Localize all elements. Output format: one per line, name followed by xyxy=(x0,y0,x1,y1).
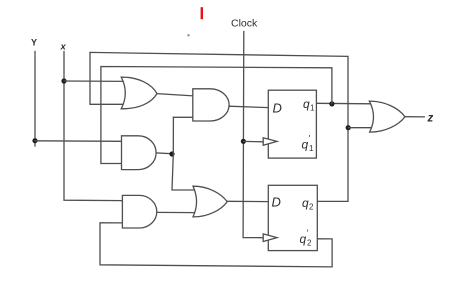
node q2 feedback junction xyxy=(346,125,351,130)
wire Y to G2 upper input xyxy=(35,140,122,143)
op: OR gate G6 output gate xyxy=(369,101,405,132)
wire clock to U1 clock pin xyxy=(243,140,263,142)
op: OR gate G1 xyxy=(121,77,157,109)
svg-text:2: 2 xyxy=(309,203,314,212)
svg-text:D: D xyxy=(273,101,282,116)
wire Y vertical xyxy=(34,52,36,147)
wire G5 output to U2 D input xyxy=(227,200,268,202)
op: AND gate G4 xyxy=(193,89,229,121)
pin U1 clock wedge xyxy=(263,138,277,146)
wire Clock vertical xyxy=(243,32,263,238)
wire G1 output to G4 upper input xyxy=(157,94,193,96)
node q1 junction xyxy=(329,101,334,106)
svg-text:q: q xyxy=(302,138,309,152)
svg-text:Clock: Clock xyxy=(231,18,258,30)
wire x to G1 upper input xyxy=(64,80,125,82)
svg-text:D: D xyxy=(272,195,281,210)
wire feedback B from q1 to G2 lower input xyxy=(101,67,332,164)
wire junction up to G4 lower input xyxy=(173,116,192,118)
flip-flop U1 box xyxy=(268,90,316,158)
svg-text:Y: Y xyxy=(31,38,37,48)
wire G3 output to G5 lower input xyxy=(157,211,194,213)
svg-text:1: 1 xyxy=(310,104,315,113)
wire G2 output xyxy=(156,152,173,155)
wire q1 to G6 upper input xyxy=(316,102,371,105)
op: OR gate G5 xyxy=(193,186,227,217)
flip-flop U2 box xyxy=(268,185,317,250)
op: AND gate G2 xyxy=(122,136,157,170)
node G2 output junction xyxy=(169,151,174,156)
svg-text:q: q xyxy=(303,97,310,111)
wire q2' bottom feedback to G3 lower input xyxy=(100,223,332,267)
node x junction xyxy=(61,78,66,83)
wire x vertical xyxy=(64,52,123,201)
svg-text:2: 2 xyxy=(307,239,312,248)
svg-text:1: 1 xyxy=(309,144,314,153)
wire G6 output to z xyxy=(405,116,424,118)
node clock junction xyxy=(241,139,246,144)
op: AND gate G3 xyxy=(122,195,156,228)
wire G4 output to U1 D input xyxy=(229,106,268,107)
svg-text:q: q xyxy=(300,232,307,246)
pin U2 clock wedge xyxy=(263,234,277,242)
svg-text:q: q xyxy=(302,196,309,210)
gray speck xyxy=(187,34,189,36)
wire q2 feedback to G6 lower input xyxy=(348,127,372,129)
wire junction vertical xyxy=(172,117,194,190)
svg-text:z: z xyxy=(427,113,434,125)
node Y junction xyxy=(32,138,37,143)
svg-text:x: x xyxy=(60,42,67,53)
wire feedback A from q2 to G1 lower input xyxy=(90,52,348,201)
red stray mark xyxy=(201,7,203,19)
